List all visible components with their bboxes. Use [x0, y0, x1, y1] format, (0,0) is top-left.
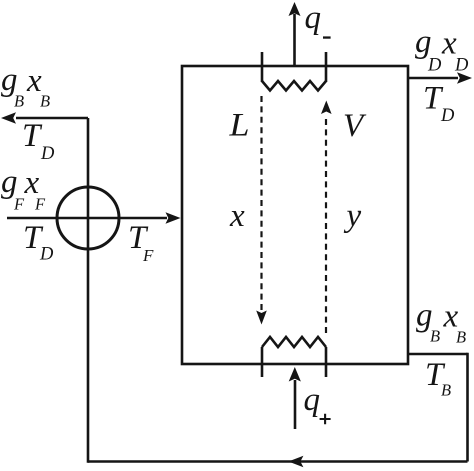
svg-text:V: V	[343, 108, 367, 144]
bottoms return line	[88, 460, 468, 463]
reboiler hanger left	[261, 347, 264, 377]
internal vapor dashed line V	[325, 115, 327, 333]
svg-text:D: D	[39, 245, 54, 265]
recycle vertical pipe	[87, 118, 90, 463]
bottoms return arrowhead left	[288, 456, 303, 468]
q plus arrow line	[294, 380, 297, 429]
svg-text:F: F	[34, 195, 46, 214]
svg-text:x: x	[229, 198, 245, 234]
q plus arrowhead	[289, 367, 301, 382]
svg-text:B: B	[441, 381, 451, 400]
q minus arrow line	[293, 14, 296, 66]
reboiler zigzag	[262, 337, 326, 347]
svg-text:D: D	[440, 106, 455, 126]
svg-text:D: D	[454, 56, 469, 76]
feed arrowhead	[166, 212, 181, 223]
q minus arrowhead	[289, 2, 301, 16]
svg-text:T: T	[22, 118, 43, 154]
svg-text:F: F	[142, 246, 154, 265]
svg-text:B: B	[430, 327, 440, 346]
svg-text:D: D	[427, 56, 442, 76]
feed line	[7, 217, 167, 220]
svg-text:y: y	[344, 198, 362, 234]
bottoms outlet pipe vertical	[466, 353, 469, 462]
distillate outlet line	[408, 77, 458, 80]
bottoms outlet pipe horizontal	[408, 353, 468, 356]
mixer circle	[57, 187, 119, 249]
svg-text:B: B	[456, 328, 466, 347]
distillate return arrowhead left	[1, 112, 16, 123]
condenser hanger left	[261, 52, 264, 82]
condenser zigzag	[262, 81, 326, 91]
svg-text:L: L	[228, 108, 249, 144]
reboiler hanger right	[325, 347, 328, 377]
distillate outlet arrowhead	[457, 72, 472, 83]
distillate return line top-left	[16, 117, 88, 120]
liquid arrowhead down	[256, 311, 267, 325]
svg-text:F: F	[13, 195, 25, 214]
condenser hanger right	[325, 52, 328, 82]
svg-text:D: D	[40, 144, 55, 164]
column body	[182, 66, 408, 364]
svg-text:q: q	[304, 382, 321, 418]
svg-text:B: B	[40, 92, 50, 111]
svg-text:q: q	[305, 0, 322, 36]
internal liquid dashed line L	[260, 96, 262, 311]
svg-text:B: B	[14, 92, 24, 111]
vapor arrowhead up	[321, 101, 332, 115]
